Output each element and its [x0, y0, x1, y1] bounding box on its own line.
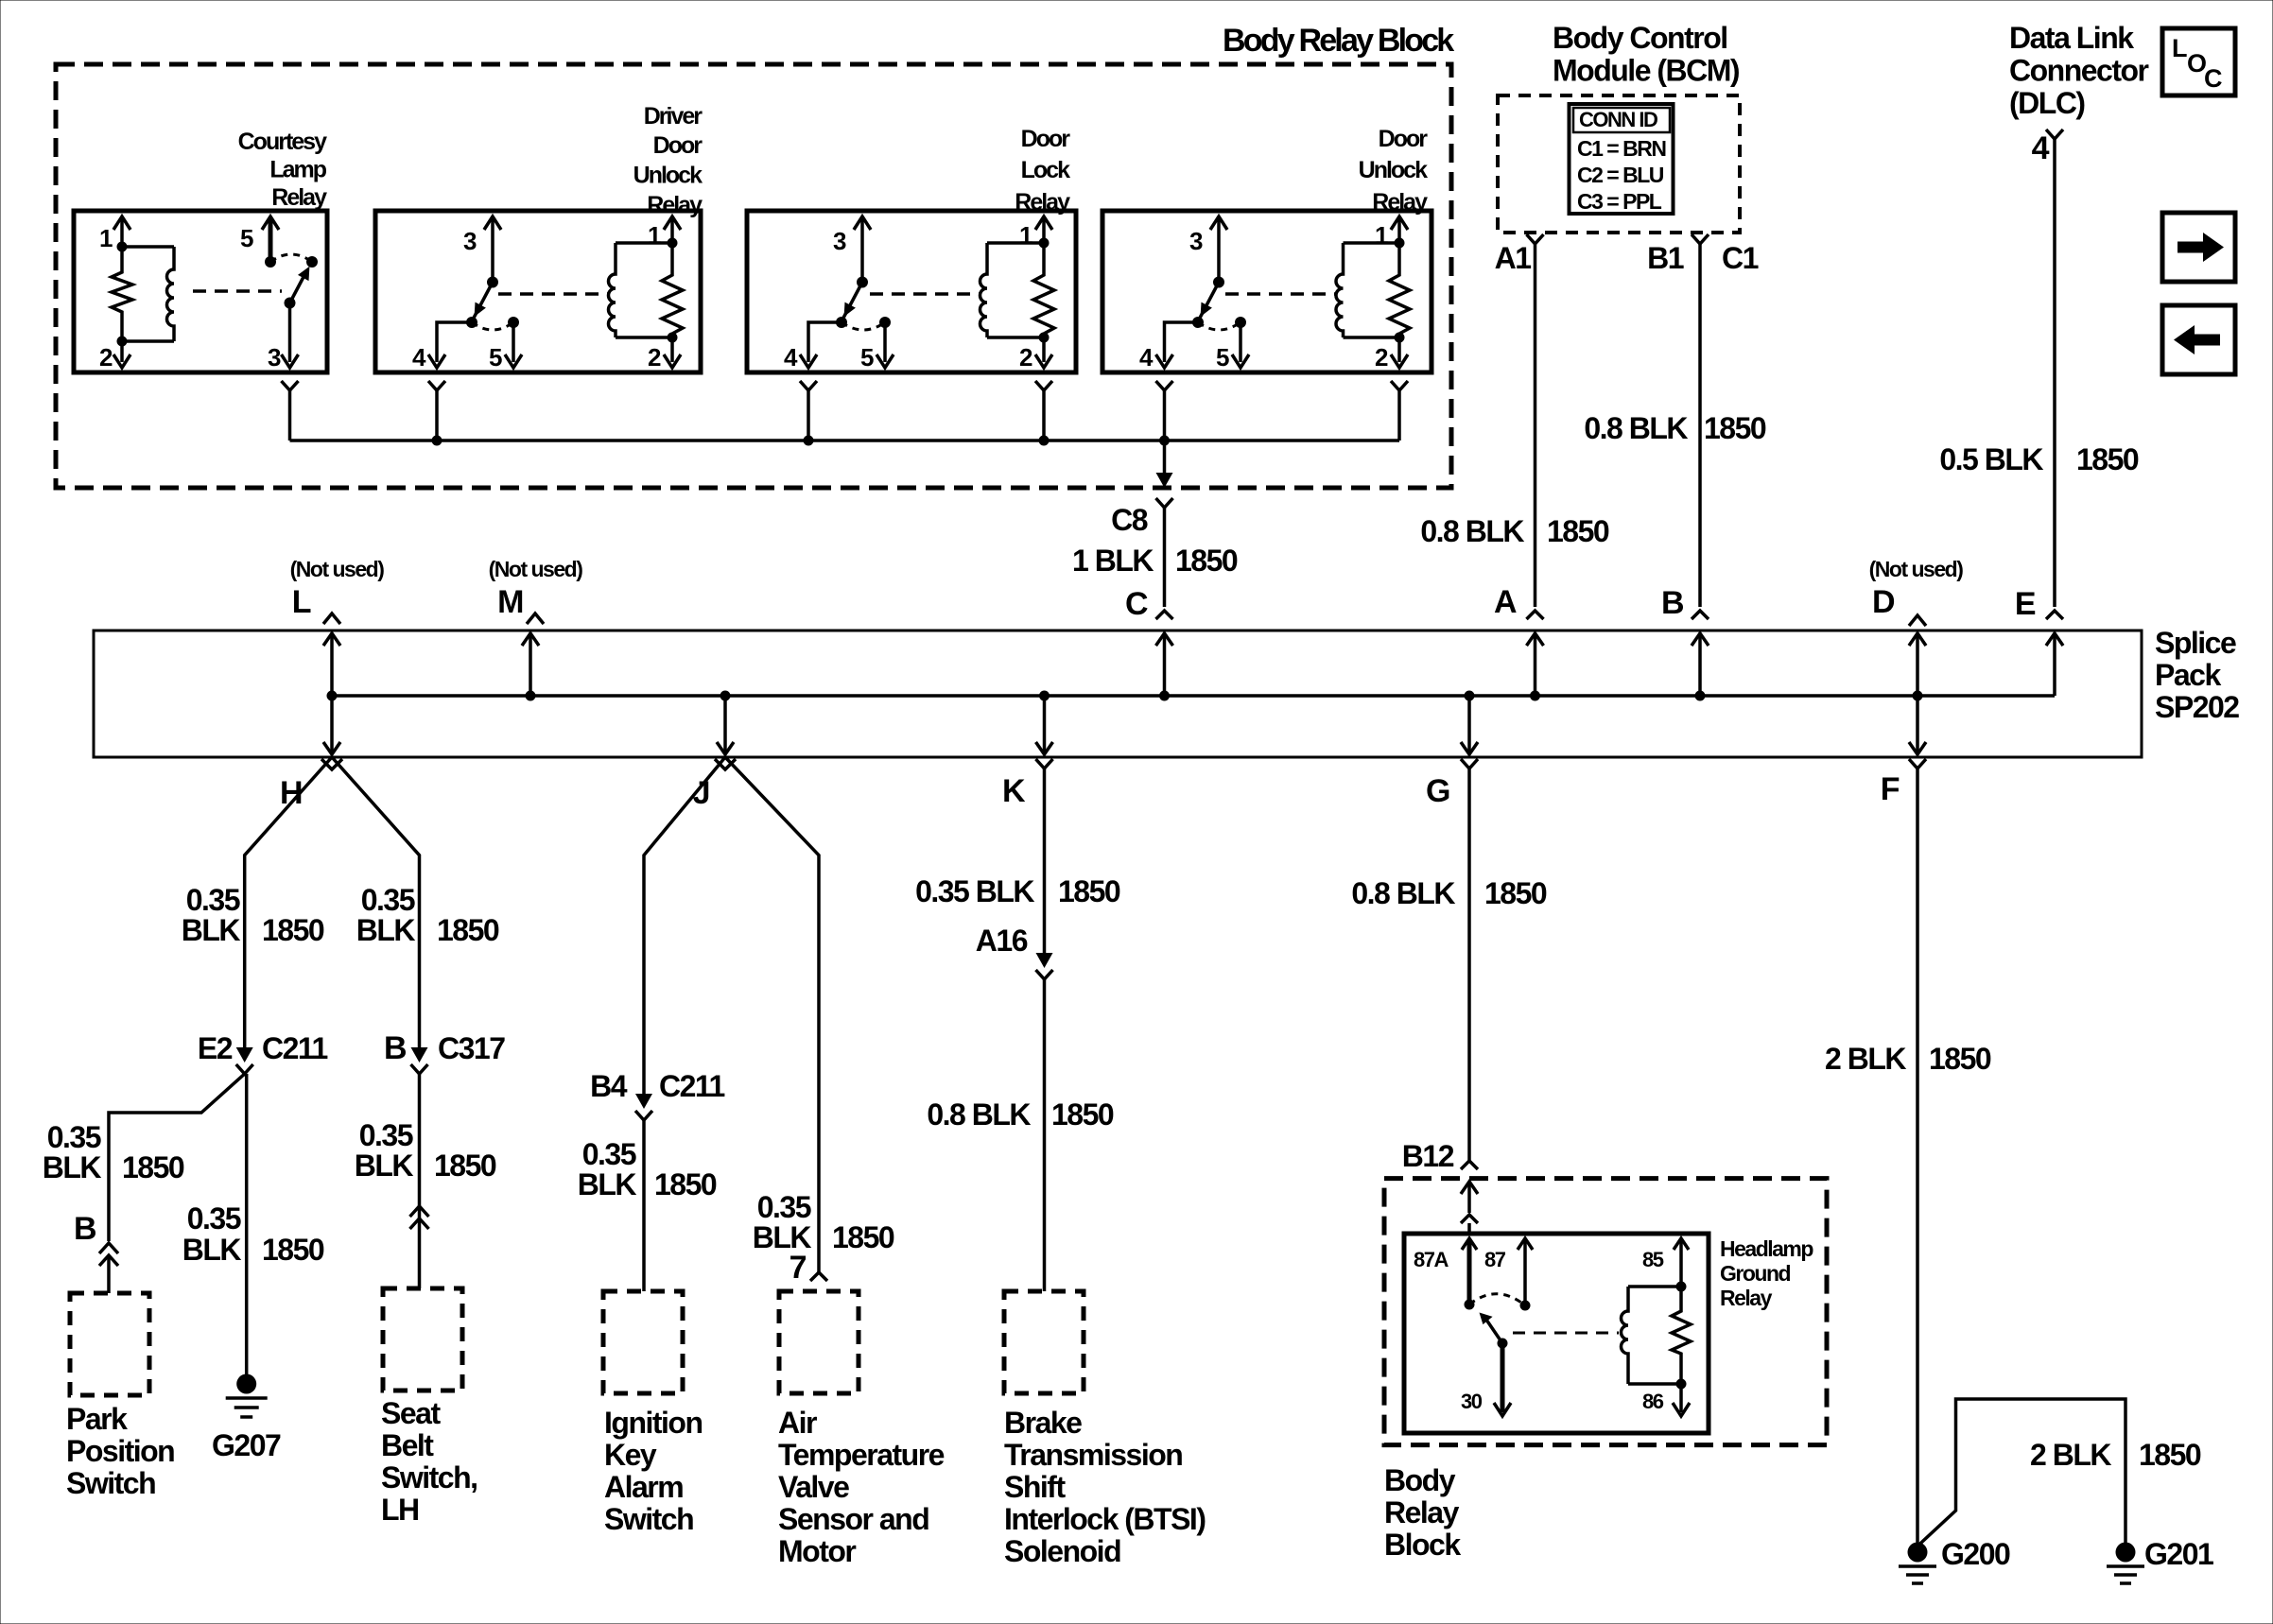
svg-text:Switch,: Switch,: [381, 1460, 477, 1494]
svg-text:A: A: [1494, 584, 1517, 620]
junction dot bus/K3 pin4: [804, 436, 814, 446]
svg-text:Pack: Pack: [2155, 658, 2221, 692]
wire C8 to splice C: [1163, 508, 1167, 607]
svg-text:Solenoid: Solenoid: [1004, 1534, 1120, 1568]
K5 throw dashed arc: [1469, 1294, 1525, 1305]
svg-text:B: B: [1661, 585, 1684, 621]
K3 lever throw dot: [836, 317, 847, 328]
svg-text:86: 86: [1642, 1390, 1664, 1413]
connector fork BCM pin B1: [1692, 234, 1709, 244]
svg-text:Relay: Relay: [1384, 1495, 1460, 1529]
wire BCM A1 to splice A: [1534, 244, 1537, 607]
splice K connector fork: [1036, 759, 1053, 769]
K4 pin 4: [1165, 322, 1199, 362]
svg-text:Lock: Lock: [1021, 157, 1070, 183]
svg-text:Door: Door: [1379, 126, 1429, 152]
K1 pin 3: [288, 303, 292, 363]
wire H right diagonal: [332, 757, 420, 1047]
K4 armature dashed link: [1225, 292, 1337, 296]
K1 pin 5: [262, 216, 279, 230]
K5 resistor: [1672, 1287, 1691, 1384]
svg-text:C8: C8: [1111, 503, 1148, 537]
svg-text:1850: 1850: [1051, 1097, 1114, 1132]
K5 87A contact dot: [1465, 1300, 1475, 1310]
svg-text:K: K: [1002, 773, 1026, 809]
svg-text:B: B: [384, 1030, 407, 1066]
K3 node pin1 dot: [1039, 238, 1050, 249]
K2 coil: [609, 243, 616, 337]
wire seat belt drop: [418, 1074, 422, 1288]
BCM dashed box: [1498, 95, 1740, 233]
connector double chevron (park): [99, 1243, 118, 1253]
svg-text:Body: Body: [1384, 1463, 1456, 1497]
Splice Pack SP202 box: [94, 631, 2142, 757]
K5 armature dashed link: [1513, 1332, 1619, 1335]
K3 coil bottom link: [987, 336, 1044, 339]
splice H split connector: [321, 759, 342, 769]
svg-text:87A: 87A: [1414, 1248, 1449, 1271]
K4 node pin1 dot: [1395, 238, 1405, 249]
svg-text:1850: 1850: [1484, 876, 1547, 910]
K5 node 86 dot: [1676, 1379, 1687, 1390]
svg-text:Body Control: Body Control: [1553, 21, 1727, 55]
svg-text:(Not used): (Not used): [1869, 557, 1964, 581]
svg-text:Interlock (BTSI): Interlock (BTSI): [1004, 1502, 1206, 1536]
wire K3 pin2 to bus: [1042, 390, 1046, 441]
caret D not-used stub: [1909, 615, 1926, 626]
svg-text:1: 1: [99, 224, 113, 252]
svg-text:Connector: Connector: [2009, 54, 2149, 88]
splice terminal K: [1043, 696, 1047, 754]
wire K3 pin4 to bus: [807, 390, 810, 441]
K2 pin 1: [664, 216, 681, 230]
wire K1 pin3 to bus: [288, 390, 292, 441]
svg-text:3: 3: [268, 343, 281, 371]
relay K5 Headlamp Ground Relay box: [1404, 1234, 1709, 1433]
relay K1 Courtesy Lamp Relay box: [74, 211, 327, 372]
wire BCM B1 to splice B: [1698, 244, 1702, 607]
connector A16 arrow and chevron: [1036, 953, 1053, 968]
splice terminal L: [330, 633, 334, 754]
wire DLC pin4 to splice E: [2053, 139, 2056, 607]
svg-text:Block: Block: [1384, 1528, 1461, 1562]
K2 coil bottom link: [616, 336, 672, 339]
svg-text:0.35: 0.35: [361, 883, 415, 917]
connector fork above splice C: [1156, 611, 1173, 619]
K5 pin 86: [1679, 1384, 1683, 1412]
wire K4 pin2 to bus: [1397, 390, 1401, 441]
splice G connector fork: [1461, 759, 1478, 769]
K1 coil: [167, 247, 174, 341]
svg-text:Belt: Belt: [381, 1428, 434, 1462]
K2 coil top link: [616, 241, 672, 245]
svg-text:0.8 BLK: 0.8 BLK: [927, 1097, 1031, 1132]
svg-text:5: 5: [860, 343, 874, 371]
K3 pin2 connector fork: [1035, 381, 1052, 390]
svg-text:CONN ID: CONN ID: [1579, 108, 1657, 131]
K4 coil: [1336, 243, 1343, 337]
svg-text:Body Relay Block: Body Relay Block: [1223, 23, 1454, 59]
K5 pin 87A: [1462, 1238, 1477, 1250]
svg-text:D: D: [1872, 584, 1895, 620]
svg-text:C3 = PPL: C3 = PPL: [1577, 189, 1662, 214]
svg-text:BLK: BLK: [43, 1150, 102, 1184]
svg-text:Ground: Ground: [1720, 1261, 1790, 1286]
svg-text:Key: Key: [604, 1438, 657, 1472]
splice terminal D/F: [1916, 633, 1919, 754]
K4 pin4 connector fork: [1156, 381, 1173, 390]
junction dot bus/K3 pin2: [1039, 436, 1050, 446]
svg-text:4: 4: [412, 343, 426, 371]
relay K4 Door Unlock Relay box: [1102, 211, 1431, 372]
wire J left diagonal: [644, 757, 725, 1094]
svg-text:Position: Position: [66, 1434, 174, 1468]
svg-text:Door: Door: [653, 132, 703, 159]
K5 lever pivot dot: [1498, 1339, 1508, 1349]
splice internal bus: [332, 694, 2055, 698]
K3 throw dashed arc: [842, 322, 885, 330]
svg-text:(Not used): (Not used): [489, 557, 583, 581]
K1 switch lever: [290, 277, 304, 303]
svg-text:2: 2: [99, 343, 113, 371]
svg-text:1850: 1850: [1929, 1042, 1991, 1076]
K4 pin 5: [1235, 317, 1246, 328]
svg-text:C1 = BRN: C1 = BRN: [1577, 136, 1666, 161]
K1 pin3 connector fork: [282, 381, 299, 390]
svg-text:1850: 1850: [434, 1149, 496, 1183]
svg-text:Relay: Relay: [271, 184, 327, 211]
connector fork above splice A: [1527, 611, 1544, 619]
K2 resistor: [662, 243, 683, 337]
connector fork DLC pin 4: [2046, 130, 2063, 139]
splice terminal B: [1698, 633, 1702, 696]
wire K drop lower: [1043, 979, 1047, 1291]
svg-text:B: B: [74, 1211, 96, 1247]
K4 coil top link: [1344, 241, 1400, 245]
svg-text:Relay: Relay: [1720, 1286, 1773, 1310]
svg-text:1850: 1850: [262, 1233, 324, 1267]
svg-text:Seat: Seat: [381, 1396, 441, 1430]
K4 node pin2 dot: [1395, 333, 1405, 343]
svg-text:G201: G201: [2144, 1537, 2213, 1571]
svg-text:BLK: BLK: [182, 913, 241, 947]
K1 pin 1: [113, 216, 130, 230]
svg-text:1850: 1850: [832, 1220, 894, 1254]
svg-text:0.35 BLK: 0.35 BLK: [915, 874, 1034, 908]
K5 coil: [1622, 1287, 1629, 1384]
svg-text:0.5 BLK: 0.5 BLK: [1939, 442, 2043, 476]
splice terminal G: [1467, 696, 1471, 754]
svg-text:2 BLK: 2 BLK: [2030, 1438, 2111, 1472]
K1 armature dashed link: [193, 289, 282, 293]
K4 pin 1: [1391, 216, 1408, 230]
svg-text:BLK: BLK: [182, 1233, 242, 1267]
svg-text:2 BLK: 2 BLK: [1825, 1042, 1906, 1076]
connector fork above air temp box: [810, 1272, 827, 1281]
K1 resistor: [112, 247, 132, 341]
wire J right diagonal: [725, 757, 819, 1272]
K5 switch lever: [1486, 1320, 1502, 1343]
legend arrow box left: [2162, 305, 2235, 374]
svg-text:30: 30: [1461, 1390, 1483, 1413]
splice terminal J: [723, 696, 727, 754]
wire K drop upper: [1043, 769, 1047, 953]
wire K2 pin4 to bus: [435, 390, 439, 441]
K2 switch lever: [472, 283, 493, 322]
Seat Belt Switch box: [383, 1288, 462, 1391]
svg-text:Driver: Driver: [644, 103, 703, 130]
svg-text:Sensor and: Sensor and: [778, 1502, 928, 1536]
K4 pin 3: [1210, 216, 1227, 230]
K1 node pin1 dot: [117, 242, 128, 252]
svg-text:G207: G207: [212, 1428, 281, 1462]
connector fork BCM pin A1: [1527, 234, 1544, 244]
connector C211 (E2) arrow and chevron: [236, 1047, 253, 1063]
K1 switch throw dot: [306, 256, 318, 268]
svg-text:1850: 1850: [1058, 874, 1120, 908]
K3 pin 4: [808, 322, 842, 362]
svg-text:0.35: 0.35: [47, 1120, 101, 1154]
svg-text:4: 4: [784, 343, 798, 371]
svg-text:L: L: [2172, 34, 2187, 62]
svg-text:Switch: Switch: [66, 1466, 155, 1500]
svg-text:Data Link: Data Link: [2009, 21, 2134, 55]
svg-text:BLK: BLK: [578, 1167, 637, 1201]
junction dot bus/C8 drop: [1159, 436, 1170, 446]
Ignition Key Alarm Switch box: [603, 1291, 683, 1393]
wire E2 jog to park position switch: [109, 1074, 245, 1241]
svg-text:Headlamp: Headlamp: [1720, 1236, 1813, 1261]
K2 node pin1 dot: [668, 238, 678, 249]
svg-text:BLK: BLK: [355, 1149, 414, 1183]
K2 pin 4: [437, 322, 472, 362]
Body Relay Block (top) dashed enclosure: [56, 64, 1451, 488]
K5 87 contact dot: [1520, 1301, 1531, 1311]
svg-text:M: M: [497, 584, 523, 620]
svg-text:Lamp: Lamp: [269, 157, 326, 183]
K3 switch common dot: [857, 277, 868, 288]
svg-text:BLK: BLK: [356, 913, 416, 947]
CONN ID table box: [1570, 104, 1674, 214]
legend arrow box right: [2162, 213, 2235, 282]
svg-text:Ignition: Ignition: [604, 1406, 703, 1440]
connector C8 fork: [1156, 498, 1173, 508]
ground G200: [1908, 1543, 1928, 1563]
svg-text:1850: 1850: [654, 1167, 717, 1201]
K1 coil top link: [122, 245, 174, 249]
K2 armature dashed link: [498, 292, 610, 296]
K4 switch common dot: [1213, 277, 1224, 288]
svg-text:A16: A16: [976, 924, 1028, 958]
wire ignition drop: [642, 1120, 646, 1291]
K4 throw dashed arc: [1198, 322, 1241, 330]
connector fork above B12: [1461, 1161, 1478, 1169]
svg-text:2: 2: [1375, 343, 1388, 371]
splice terminal A: [1534, 633, 1537, 696]
svg-text:A1: A1: [1495, 241, 1532, 275]
svg-text:0.35: 0.35: [186, 883, 240, 917]
svg-text:5: 5: [489, 343, 502, 371]
K1 switch common dot: [265, 256, 276, 268]
svg-text:Valve: Valve: [778, 1470, 849, 1504]
svg-text:85: 85: [1642, 1248, 1664, 1271]
svg-text:C1: C1: [1722, 241, 1759, 275]
svg-text:87: 87: [1484, 1248, 1506, 1271]
splice terminal E: [2053, 633, 2056, 696]
svg-text:Park: Park: [66, 1402, 128, 1436]
svg-text:2: 2: [1019, 343, 1032, 371]
K2 switch common dot: [487, 277, 498, 288]
K3 pin4 connector fork: [800, 381, 817, 390]
svg-text:1850: 1850: [2076, 442, 2139, 476]
junction dot bus/K2: [432, 436, 442, 446]
svg-text:(Not used): (Not used): [290, 557, 385, 581]
svg-text:B4: B4: [590, 1069, 628, 1103]
svg-text:1 BLK: 1 BLK: [1072, 544, 1154, 578]
svg-text:Unlock: Unlock: [633, 163, 703, 189]
svg-text:L: L: [292, 584, 311, 620]
svg-text:G: G: [1426, 773, 1449, 809]
svg-text:B1: B1: [1647, 241, 1684, 275]
svg-text:1850: 1850: [1704, 411, 1766, 445]
K5 coil top link: [1628, 1285, 1681, 1288]
svg-text:C211: C211: [659, 1069, 724, 1103]
svg-text:0.35: 0.35: [757, 1190, 811, 1224]
svg-text:5: 5: [1216, 343, 1229, 371]
svg-text:F: F: [1881, 771, 1900, 807]
connector C317 arrow and chevron: [411, 1047, 428, 1063]
svg-text:4: 4: [2032, 130, 2050, 166]
K3 resistor: [1033, 243, 1054, 337]
wire F drop to G200: [1916, 769, 1919, 1543]
svg-text:SP202: SP202: [2155, 690, 2239, 724]
svg-text:Transmission: Transmission: [1004, 1438, 1182, 1472]
splice J split connector: [715, 759, 736, 769]
svg-text:(DLC): (DLC): [2009, 86, 2085, 120]
svg-text:Air: Air: [778, 1406, 817, 1440]
K4 switch lever: [1198, 283, 1219, 322]
svg-text:5: 5: [240, 224, 253, 252]
svg-text:0.8 BLK: 0.8 BLK: [1584, 411, 1688, 445]
relay K2 Driver Door Unlock Relay box: [375, 211, 701, 372]
wire K4 pin4 down through bus to C8: [1163, 390, 1167, 474]
Park Position Switch box: [70, 1293, 149, 1395]
K3 coil top link: [987, 241, 1044, 245]
K2 lever throw dot: [466, 317, 477, 328]
svg-text:Motor: Motor: [778, 1534, 856, 1568]
svg-text:Temperature: Temperature: [778, 1438, 945, 1472]
relay K3 Door Lock Relay box: [747, 211, 1076, 372]
K4 coil bottom link: [1344, 336, 1400, 339]
svg-text:C: C: [1125, 586, 1148, 622]
K3 coil: [980, 243, 987, 337]
svg-text:C: C: [2204, 64, 2222, 93]
wire H left diagonal: [245, 757, 332, 1047]
svg-text:3: 3: [833, 227, 846, 255]
K5 pin 85: [1674, 1238, 1689, 1250]
svg-text:Module (BCM): Module (BCM): [1553, 54, 1740, 88]
ground G201: [2116, 1543, 2136, 1563]
caret M not-used stub: [527, 613, 544, 624]
svg-text:1850: 1850: [1547, 514, 1609, 548]
K3 switch lever: [842, 283, 862, 322]
connector C211 (B4) arrow and chevron: [635, 1094, 652, 1109]
svg-text:1850: 1850: [1175, 544, 1238, 578]
svg-text:Splice: Splice: [2155, 626, 2236, 660]
svg-text:4: 4: [1139, 343, 1154, 371]
svg-text:1: 1: [1019, 221, 1032, 250]
K4 lever throw dot: [1192, 317, 1204, 328]
svg-text:E: E: [2015, 586, 2036, 622]
LOC legend box: [2162, 28, 2235, 95]
K1 node pin2 dot: [117, 337, 128, 347]
svg-text:Switch: Switch: [604, 1502, 693, 1536]
K3 node pin2 dot: [1039, 333, 1050, 343]
K2 node pin2 dot: [668, 333, 678, 343]
caret L not-used stub: [323, 613, 340, 624]
svg-text:Relay: Relay: [647, 192, 703, 218]
svg-text:Courtesy: Courtesy: [238, 129, 327, 155]
svg-text:1: 1: [1375, 221, 1388, 250]
svg-text:0.35: 0.35: [187, 1201, 241, 1235]
svg-text:0.8 BLK: 0.8 BLK: [1351, 876, 1455, 910]
svg-text:2: 2: [648, 343, 661, 371]
svg-text:1850: 1850: [2139, 1438, 2201, 1472]
wire into park switch: [107, 1257, 111, 1293]
K1 pin 2: [120, 341, 124, 362]
svg-text:Unlock: Unlock: [1359, 157, 1428, 183]
K2 throw dashed arc: [472, 322, 513, 330]
svg-text:0.35: 0.35: [359, 1118, 413, 1152]
K2 pin 5: [508, 317, 519, 328]
svg-text:0.35: 0.35: [582, 1137, 636, 1171]
splice terminal M: [529, 633, 532, 696]
K4 pin 2: [1397, 337, 1401, 362]
K5 pin 87: [1518, 1238, 1533, 1250]
svg-text:G200: G200: [1941, 1537, 2010, 1571]
connector double chevron (seat): [410, 1206, 429, 1217]
wire ground bus below relays: [290, 439, 1400, 442]
wire G207 drop: [245, 1074, 249, 1374]
splice terminal C: [1163, 633, 1167, 696]
svg-text:Alarm: Alarm: [604, 1470, 683, 1504]
K3 armature dashed link: [870, 292, 981, 296]
K1 switch throw dashed arc: [270, 254, 312, 262]
connector fork above splice B: [1692, 611, 1709, 619]
Air Temperature box: [779, 1291, 859, 1393]
wire G drop to B12: [1467, 769, 1471, 1161]
svg-text:1850: 1850: [262, 913, 324, 947]
BTSI Solenoid box: [1004, 1291, 1084, 1393]
svg-text:Shift: Shift: [1004, 1470, 1066, 1504]
K2 pin 2: [670, 337, 674, 362]
svg-text:7: 7: [789, 1250, 807, 1286]
svg-text:0.8 BLK: 0.8 BLK: [1420, 514, 1524, 548]
wire C8 exit arrow at block boundary: [1156, 473, 1173, 488]
K2 pin4 connector fork: [428, 381, 445, 390]
wire G201 branch: [1920, 1399, 2126, 1544]
K1 coil bottom link: [122, 339, 174, 343]
svg-text:Brake: Brake: [1004, 1406, 1082, 1440]
K2 pin 3: [484, 216, 501, 230]
svg-text:1: 1: [648, 221, 661, 250]
svg-text:1850: 1850: [437, 913, 499, 947]
ground G207: [236, 1374, 256, 1394]
svg-text:C317: C317: [438, 1031, 505, 1065]
svg-text:3: 3: [463, 227, 477, 255]
svg-text:B12: B12: [1402, 1139, 1454, 1173]
svg-text:C211: C211: [262, 1031, 327, 1065]
